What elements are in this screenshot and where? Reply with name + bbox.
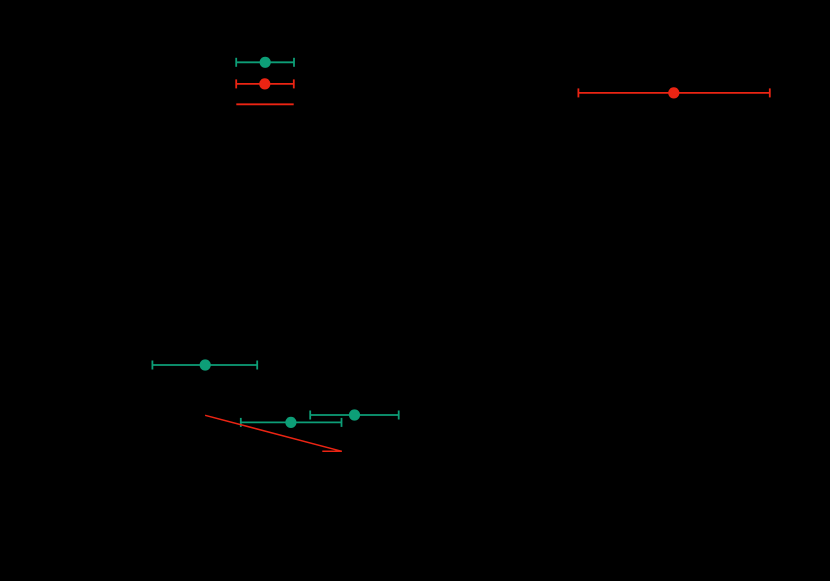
red point (right): [668, 87, 679, 98]
teal error bar (lower left): [152, 361, 257, 370]
red diagonal line: [205, 415, 342, 451]
red point (second row): [259, 78, 270, 89]
teal point (lower left): [200, 359, 211, 370]
teal point (lower right): [349, 409, 360, 420]
teal error bar (lower right): [310, 411, 399, 420]
red horizontal tick at diagonal end: [322, 450, 342, 452]
teal point (lower middle): [285, 417, 296, 428]
red error bar (second row): [236, 79, 294, 88]
teal error bar (top, series 1): [236, 58, 294, 67]
teal point (top): [260, 57, 271, 68]
red horizontal line (third row, no caps): [236, 103, 293, 105]
teal error bar (lower middle): [241, 418, 342, 427]
red error bar (right, wide): [578, 88, 769, 97]
